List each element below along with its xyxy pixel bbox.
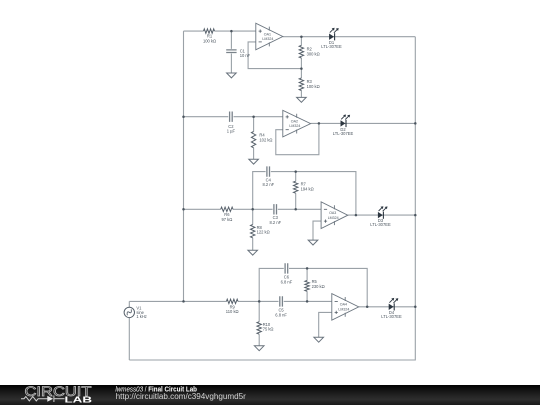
svg-text:8.2 nF: 8.2 nF bbox=[269, 220, 281, 225]
svg-text:100 kΩ: 100 kΩ bbox=[307, 84, 320, 89]
svg-text:75 kΩ: 75 kΩ bbox=[263, 327, 274, 332]
svg-text:102 kΩ: 102 kΩ bbox=[259, 138, 272, 143]
svg-text:http://circuitlab.com/c394vghg: http://circuitlab.com/c394vghgumd5r bbox=[116, 392, 247, 401]
svg-text:LTL-307EE: LTL-307EE bbox=[370, 222, 391, 227]
svg-text:300 kΩ: 300 kΩ bbox=[307, 51, 320, 56]
svg-text:OA4: OA4 bbox=[340, 303, 347, 307]
svg-text:LAB: LAB bbox=[65, 394, 93, 404]
svg-text:194 kΩ: 194 kΩ bbox=[301, 186, 314, 191]
svg-text:10 nF: 10 nF bbox=[240, 53, 251, 58]
svg-text:LM324: LM324 bbox=[338, 308, 349, 312]
svg-text:97 kΩ: 97 kΩ bbox=[221, 217, 232, 222]
svg-text:LTL-307EE: LTL-307EE bbox=[381, 314, 402, 319]
svg-text:8.2 nF: 8.2 nF bbox=[262, 182, 274, 187]
svg-text:LM324: LM324 bbox=[262, 37, 273, 41]
svg-text:230 kΩ: 230 kΩ bbox=[312, 284, 325, 289]
svg-text:LTL-307EE: LTL-307EE bbox=[333, 131, 354, 136]
svg-text:OA2: OA2 bbox=[291, 119, 298, 123]
svg-text:1 µF: 1 µF bbox=[227, 129, 236, 134]
svg-text:OA1: OA1 bbox=[264, 32, 271, 36]
svg-text:6.8 nF: 6.8 nF bbox=[281, 279, 293, 284]
svg-text:OA3: OA3 bbox=[329, 211, 336, 215]
svg-text:LM324: LM324 bbox=[328, 216, 339, 220]
svg-text:1 kHz: 1 kHz bbox=[136, 314, 146, 319]
svg-text:122 kΩ: 122 kΩ bbox=[257, 230, 270, 235]
svg-text:100 kΩ: 100 kΩ bbox=[203, 38, 216, 43]
svg-text:LM324: LM324 bbox=[289, 124, 300, 128]
svg-text:LTL-307EE: LTL-307EE bbox=[321, 44, 342, 49]
svg-text:6.8 nF: 6.8 nF bbox=[275, 312, 287, 317]
svg-text:110 kΩ: 110 kΩ bbox=[226, 309, 239, 314]
